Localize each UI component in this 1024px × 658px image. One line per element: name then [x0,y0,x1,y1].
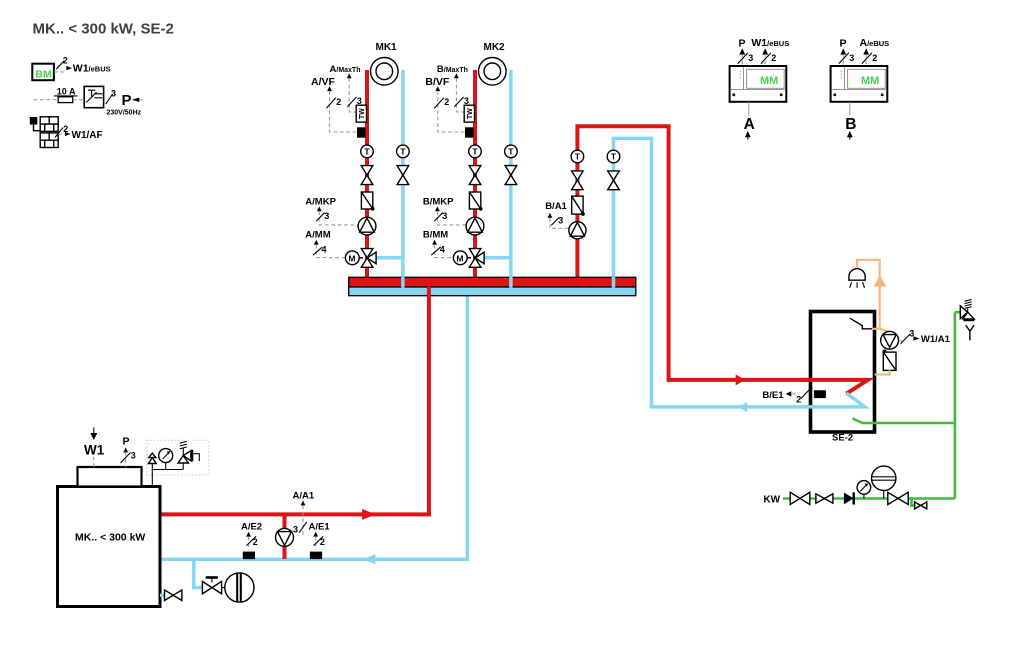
node W1/AF [65,130,103,141]
svg-text:W1/AF: W1/AF [72,130,103,141]
wire mixer to return (MK1) [374,256,403,260]
pump B/MKP [466,217,484,235]
svg-text:SE-2: SE-2 [832,433,853,444]
drain funnel [966,325,974,340]
node arrow A/MKP [317,206,322,211]
wire A/MKP dashed [319,211,357,225]
wire circulation branch [880,329,890,332]
svg-text:T: T [575,152,581,162]
svg-text:T: T [508,147,514,157]
slash 3 (MaxTh) [347,96,362,107]
wire DHW orange circuit [857,260,880,329]
shutoff valve KW 2 [816,494,833,503]
node arrow B/A1 [548,213,553,218]
svg-text:3: 3 [111,89,116,99]
label W1/A1 [899,329,951,346]
svg-text:P: P [840,38,847,50]
valve (B/A1 return) [608,171,620,190]
node B (module output) [845,102,856,140]
sensor A/E2 [241,522,262,560]
wire pump branch [283,514,287,559]
wire cold water line [783,497,955,500]
svg-text:A/eBUS: A/eBUS [860,37,890,49]
thermometer T (MK1 return) [397,145,410,158]
safety valve (boiler) [178,441,199,469]
svg-text:T: T [364,147,370,157]
label A/A1 [293,490,315,536]
wire B/A1 return crossing [612,277,616,288]
node arrow B/VF [435,86,440,91]
sensor A/VF black square [357,127,366,137]
main switch box [84,86,103,107]
wire A/VF dashed [330,91,358,132]
svg-text:TW: TW [467,108,474,119]
svg-text:MM: MM [861,75,879,87]
svg-text:A/A1: A/A1 [293,490,315,501]
wire [73,99,85,101]
valve (B/A1 supply) [572,171,584,190]
label P (module B) [839,38,854,67]
thermometer T (MK2 supply) [469,145,482,158]
wire (supply pipe MK1) [365,70,369,282]
svg-text:T: T [611,152,617,162]
slash 3 (B MKP) [434,211,447,221]
slash 3 (MKP) [316,211,329,221]
svg-text:B/E1: B/E1 [762,390,784,401]
air vent [148,453,156,469]
wire coil return inside tank [800,393,865,407]
wire boiler return riser [466,292,470,561]
svg-text:MK.. < 300 kW, SE-2: MK.. < 300 kW, SE-2 [33,21,174,38]
svg-text:M: M [348,253,355,263]
boiler drain valve [160,590,182,601]
thermometer T (B/A1 supply) [571,150,584,163]
wire boiler supply riser [427,283,431,516]
arrow return direction [363,554,376,564]
label A/eBUS (module B) [860,37,890,66]
shutoff valve KW 3 [888,492,908,504]
svg-text:W1/eBUS: W1/eBUS [73,63,111,75]
circulation pump W1/A1 [881,331,899,349]
wire boiler return [160,558,469,562]
svg-text:MK1: MK1 [376,42,398,53]
svg-text:2: 2 [320,537,325,547]
svg-text:A: A [744,116,755,133]
slash 3 (mains) [106,89,116,105]
thermometer T (B/A1 return) [607,150,620,163]
pump A/MKP [358,217,376,235]
svg-text:MM: MM [760,75,778,87]
svg-text:3: 3 [849,53,854,63]
svg-text:B/A1: B/A1 [545,201,567,212]
node W1/eBUS [66,63,110,75]
wire mixer to return (MK2) [482,256,511,260]
heating circuit MK1 [371,42,399,85]
motor M (MK1 mixer) [345,251,363,265]
svg-text:A/VF: A/VF [311,76,336,88]
storage tank SE-2 [811,312,875,444]
arrow return from tank [738,402,747,412]
manifold return bar [349,287,636,296]
sensor B/E1 black [814,390,826,398]
wire mains dashed [34,99,59,101]
shutoff valve KW 1 [790,492,810,504]
node arrow A/MM [314,240,319,245]
wire B/MKP dashed [437,211,465,225]
svg-text:3: 3 [748,53,753,63]
slash 2 (B VF) [434,97,449,108]
node P mains 230V/50Hz [107,92,143,116]
svg-text:2: 2 [771,53,776,63]
svg-text:T: T [472,147,478,157]
pump B/A1 [569,222,586,239]
wire (supply pipe B/A1 to tank coil) [577,126,868,393]
mixing valve 3-way (MK1) [361,249,376,268]
wire B/MM dashed [435,245,454,258]
wire coil supply inside tank (redraw over tank border) [800,380,868,394]
slash 2 (VF) [326,97,341,108]
node arrow B/MM [432,240,437,245]
wire B/MaxTh dashed [456,78,464,112]
svg-text:W1/A1: W1/A1 [921,334,951,345]
wire A/MM dashed [316,245,345,258]
slash 3 (B/A1) [551,216,563,226]
svg-text:B/VF: B/VF [425,76,450,88]
valve (MK1 return) [397,166,409,185]
node arrow B/MKP [435,206,440,211]
slash 3 (B MaxTh) [454,96,469,107]
svg-text:230V/50Hz: 230V/50Hz [107,109,142,116]
node arrow A/VF [327,86,332,91]
pressure gauge (boiler) [159,449,173,470]
junction dot circulation [883,350,887,354]
svg-text:2: 2 [872,53,877,63]
tank DHW outlet [850,318,872,329]
sensor B/VF black square [465,127,474,137]
outdoor sensor W1/AF [30,117,58,148]
node A (module output) [744,102,755,140]
thermostat TW (MK2) [464,105,474,122]
svg-text:4: 4 [440,245,445,255]
svg-text:3: 3 [131,451,136,461]
safety valve (DHW) [955,300,975,322]
svg-text:A/E1: A/E1 [309,522,331,533]
arrow supply into tank [736,374,745,385]
svg-text:M: M [456,253,463,263]
svg-text:10 A: 10 A [57,87,76,97]
svg-text:W1: W1 [84,443,105,458]
svg-text:P: P [739,38,746,50]
arrow DHW up [874,275,887,287]
valve (MK2 return) [505,166,517,185]
label W1/eBUS (module A) [751,37,789,66]
svg-text:BM: BM [35,69,52,81]
svg-text:A/MKP: A/MKP [305,196,336,207]
thermostat TW (MK1) [356,105,366,122]
gravity brake (MK2) [469,192,482,211]
node arrow B/MaxTh [454,73,459,78]
svg-text:P: P [122,92,132,109]
svg-text:W1/eBUS: W1/eBUS [751,37,789,49]
label P (module A) [738,38,753,67]
label B/E1 [762,389,810,405]
svg-text:KW: KW [763,495,780,506]
mixing valve 3-way (MK2) [469,249,484,268]
svg-text:B/MM: B/MM [423,230,448,241]
boiler top connection box [78,467,142,487]
svg-text:2: 2 [253,537,258,547]
mixer module MM (A) [730,66,787,102]
svg-text:MK2: MK2 [484,42,506,53]
wire B/A1 dashed [550,218,569,229]
mixer module MM (B) [831,66,888,102]
control module BM [32,64,54,81]
slash 4 (B MM) [431,245,445,256]
wire circulation into tank [875,370,890,374]
pressure gauge KW [857,481,871,499]
arrow supply direction [362,509,375,520]
svg-text:2: 2 [63,56,68,66]
drain valve KW [912,499,927,509]
svg-text:T: T [400,147,406,157]
svg-text:2: 2 [336,97,341,107]
wire expansion vessel branch [194,560,204,588]
wire MK2 return crossing [509,277,513,288]
svg-text:A/MM: A/MM [305,230,330,241]
wire safety group to boiler [152,470,183,487]
wire boiler supply crossing [427,286,431,297]
wire (return pipe tank coil to manifold) [614,138,865,407]
svg-text:2: 2 [796,395,801,405]
cap valve (expansion) [202,578,225,594]
motor M (MK2 mixer) [453,251,471,265]
gravity brake (MK1) [361,192,374,211]
shower symbol [849,269,865,288]
slash 2 (AF wire) [55,124,68,138]
slash 2 (BM wire) [56,56,68,70]
gravity brake (circulation) [883,352,896,370]
gravity brake (B/A1) [572,196,585,216]
thermometer T (MK2 return) [505,145,518,158]
manifold supply bar [349,277,636,287]
wire BM to W1/eBUS [54,71,66,73]
wire cold water outlet (tank) [853,419,955,424]
svg-text:3: 3 [324,211,329,221]
wire AF [58,133,65,135]
heating circuit MK2 [479,42,507,85]
wire MK1 return crossing [401,277,405,288]
svg-text:3: 3 [293,525,298,535]
svg-text:B: B [845,116,856,133]
wire (supply pipe MK2) [473,70,477,282]
svg-text:B/MKP: B/MKP [423,196,454,207]
svg-text:A/E2: A/E2 [241,522,262,533]
label P (boiler) [121,436,136,468]
pump A/A1 [276,528,294,546]
svg-text:P: P [123,436,130,448]
slash 4 (MM) [313,245,327,256]
pressure reducer KW [872,466,896,498]
fuse 10 A [54,87,78,103]
label W1 (boiler) [84,428,105,468]
boiler MK.. < 300 kW [58,487,161,607]
svg-text:TW: TW [359,108,366,119]
thermometer T (MK1 supply) [361,145,374,158]
svg-text:2: 2 [444,97,449,107]
svg-text:4: 4 [322,245,327,255]
wire (return pipe MK1) [401,70,405,292]
check valve KW [844,492,854,504]
svg-text:3: 3 [558,216,563,226]
valve (MK1 supply) [361,166,373,185]
sensor A/E1 [309,522,331,560]
svg-text:3: 3 [442,211,447,221]
wire boiler supply [160,512,431,516]
wire B/VF dashed [438,91,465,132]
node arrow A/MaxTh [347,73,352,78]
svg-text:MK.. < 300 kW: MK.. < 300 kW [75,532,145,544]
wire cold water riser [954,312,957,498]
wire (return pipe MK2) [509,70,513,292]
safety group dashed box [147,440,209,475]
expansion vessel [225,573,254,602]
wire A/MaxTh dashed [349,78,356,112]
valve (MK2 supply) [469,166,481,185]
